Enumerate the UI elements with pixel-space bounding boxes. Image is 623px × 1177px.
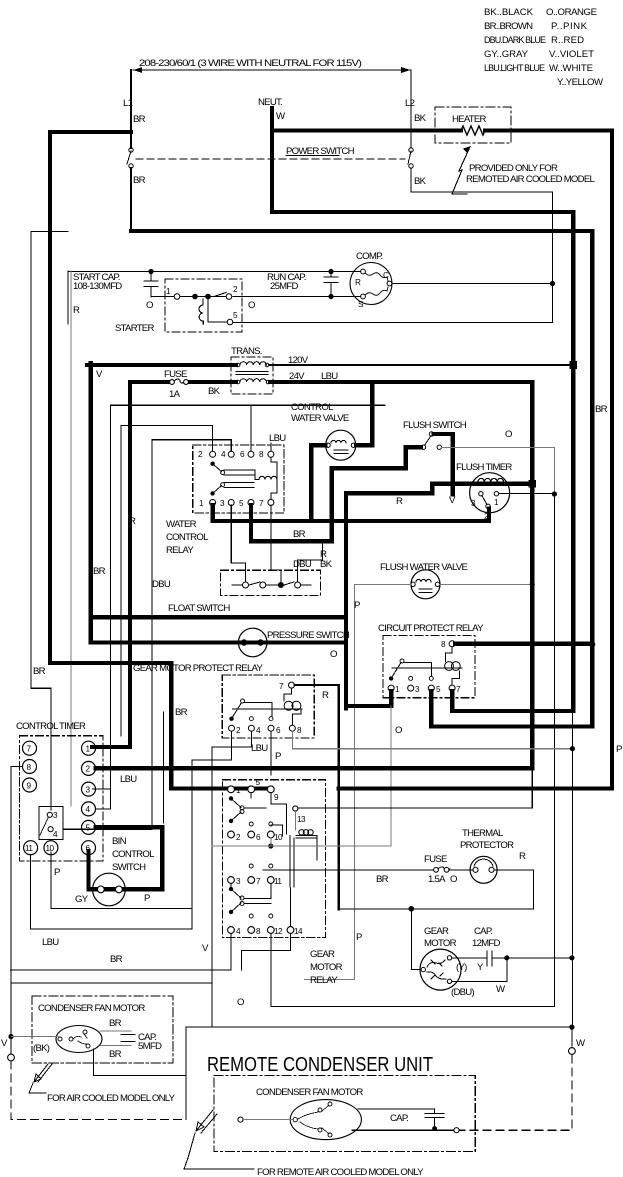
svg-text:12MFD: 12MFD (472, 938, 501, 949)
node junction P line (570, 746, 575, 751)
svg-text:GY: GY (75, 894, 89, 905)
svg-text:BK: BK (320, 559, 333, 570)
wire BR fuse line (263, 870, 533, 909)
svg-text:10: 10 (46, 844, 55, 853)
svg-text:1: 1 (494, 498, 499, 507)
svg-text:FLOAT SWITCH: FLOAT SWITCH (168, 603, 230, 614)
GM terminals row2 (228, 831, 235, 838)
wire CFM feed gray (11, 1036, 58, 1038)
GM terminals row3 (228, 877, 235, 884)
node junction t10 (268, 843, 273, 848)
svg-text:6: 6 (256, 833, 261, 842)
svg-text:FLUSH SWITCH: FLUSH SWITCH (403, 420, 467, 431)
svg-text:R: R (129, 516, 136, 527)
svg-text:W: W (576, 1038, 586, 1049)
svg-text:9: 9 (27, 781, 32, 790)
svg-text:BR: BR (109, 1018, 122, 1029)
wire V terminal bottom left (10, 970, 12, 1054)
svg-text:CAP.: CAP. (474, 926, 492, 937)
wire thick timer bus into GM relay (171, 786, 271, 790)
svg-text:BR: BR (376, 874, 389, 885)
wire timer8 stub (11, 767, 23, 970)
wire pressure to CPR1 (346, 643, 391, 707)
svg-text:BR: BR (110, 954, 123, 965)
svg-text:STARTER: STARTER (115, 323, 154, 334)
svg-text:2: 2 (236, 833, 241, 842)
wire NEUT thin continuation (571, 711, 573, 1028)
svg-text:GEAR: GEAR (424, 926, 449, 937)
svg-text:6: 6 (276, 726, 281, 735)
svg-text:1: 1 (395, 685, 400, 694)
callout arrow remote (196, 1110, 217, 1133)
svg-text:5: 5 (233, 311, 238, 320)
condenser fan motor box (32, 996, 173, 1063)
svg-text:W..WHITE: W..WHITE (549, 63, 593, 74)
svg-text:FLUSH WATER VALVE: FLUSH WATER VALVE (380, 562, 467, 573)
heater callout arrow (452, 149, 469, 194)
svg-text:8: 8 (256, 927, 261, 936)
wire GMP7 right and down (295, 685, 339, 909)
svg-text:FOR REMOTE AIR COOLED MODEL ON: FOR REMOTE AIR COOLED MODEL ONLY (257, 1167, 424, 1177)
svg-text:WATER: WATER (166, 519, 197, 530)
svg-text:5: 5 (86, 824, 91, 833)
wire timer6 thick to bin (89, 851, 163, 889)
wire L1 bus right (131, 231, 592, 727)
GM terminal 13 (293, 806, 298, 811)
svg-text:SWITCH: SWITCH (112, 862, 146, 873)
node junction cap right (504, 955, 509, 960)
pressure switch (238, 628, 267, 657)
wire left outer thin (31, 232, 68, 909)
svg-text:DBU: DBU (293, 559, 312, 570)
svg-text:GY..GRAY: GY..GRAY (484, 49, 529, 60)
svg-text:R..RED: R..RED (551, 35, 584, 46)
wire t14 jog (242, 933, 291, 969)
timer circle 2 (82, 761, 96, 775)
float switch contacts (243, 582, 249, 588)
GM coil (294, 812, 296, 831)
svg-text:MOTOR: MOTOR (424, 938, 457, 949)
wire relay t2 up distribution (121, 426, 213, 737)
wire flush switch common (434, 434, 453, 495)
svg-text:BR: BR (293, 529, 306, 540)
svg-text:6: 6 (240, 450, 245, 459)
svg-text:RELAY: RELAY (310, 975, 338, 986)
svg-text:PROVIDED ONLY FOR: PROVIDED ONLY FOR (469, 163, 558, 174)
svg-text:CONTROL: CONTROL (166, 532, 209, 543)
svg-text:P: P (54, 867, 60, 878)
node junction W line (569, 1025, 574, 1030)
trans primary (236, 363, 240, 367)
GM arm 2 (229, 819, 233, 823)
svg-text:7: 7 (456, 685, 461, 694)
heater resistor element (461, 126, 485, 135)
svg-text:5: 5 (239, 499, 244, 508)
timer circle 7 (23, 741, 37, 755)
relay coil (259, 476, 277, 479)
wire flush switch NC orange (442, 448, 555, 494)
svg-text:3: 3 (415, 685, 420, 694)
svg-text:1.5A: 1.5A (428, 874, 446, 885)
capacitor start cap (144, 272, 158, 298)
wire NEUT drop (270, 108, 274, 212)
svg-text:O: O (450, 874, 457, 885)
svg-text:8: 8 (441, 640, 446, 649)
timer circle 9 (23, 778, 37, 792)
svg-text:BK: BK (208, 386, 221, 397)
node junction remote cap (432, 1126, 437, 1131)
GM arm 4 (229, 910, 233, 914)
wire flush valve right to LBU bus (440, 583, 533, 585)
svg-text:BR: BR (109, 1049, 122, 1060)
svg-text:7: 7 (279, 682, 284, 691)
svg-text:P..PINK: P..PINK (551, 21, 588, 32)
svg-text:1: 1 (166, 287, 171, 296)
svg-text:REMOTED AIR COOLED MODEL: REMOTED AIR COOLED MODEL (466, 174, 595, 185)
wire timer11 drop (31, 855, 192, 929)
wire remote feed (238, 1117, 243, 1122)
wire GMP2 drop (192, 732, 232, 929)
node junction O line (552, 491, 557, 496)
wire motor DBU loop (452, 960, 507, 981)
svg-text:RELAY: RELAY (166, 545, 194, 556)
svg-text:BR: BR (595, 404, 608, 415)
svg-text:BR..BROWN: BR..BROWN (484, 21, 533, 32)
GMP terminals bottom (229, 725, 235, 731)
node run cap bottom (328, 294, 333, 299)
svg-text:(Y): (Y) (456, 962, 467, 973)
switch L1 pole (127, 151, 131, 164)
wire GMP6 drop (270, 732, 272, 776)
wire heater line into GM area (339, 786, 612, 790)
capacitor 12MFD (452, 957, 507, 959)
wire L1 drop (130, 70, 132, 148)
wire timer4 stub (96, 789, 111, 809)
wire thick L1 feed left (50, 132, 131, 663)
wire CPR1 orange drop (390, 706, 392, 846)
svg-text:V: V (1, 1038, 8, 1049)
svg-text:O: O (248, 300, 255, 311)
svg-text:BR: BR (133, 175, 146, 186)
wire float BK stub (298, 541, 323, 582)
switch L2 pole (408, 151, 411, 164)
svg-text:V..VIOLET: V..VIOLET (549, 49, 594, 60)
starter enclosure thin box (67, 271, 69, 324)
svg-text:THERMAL: THERMAL (462, 828, 504, 839)
wire relay t5 to flush switch (251, 447, 421, 541)
svg-text:(BK): (BK) (33, 1043, 50, 1054)
capacitor run cap (324, 272, 338, 297)
svg-text:4: 4 (86, 805, 91, 814)
wire NEUT top to heater (272, 131, 612, 789)
GM arm 1 (229, 796, 233, 800)
wire cap to W line (507, 957, 572, 959)
svg-text:7: 7 (259, 499, 264, 508)
svg-text:3: 3 (236, 877, 241, 886)
remote box (214, 1076, 475, 1152)
svg-text:W: W (276, 111, 286, 122)
svg-text:(DBU): (DBU) (451, 987, 474, 998)
svg-text:9: 9 (274, 793, 279, 802)
wire t4 drop to BR bottom (10, 933, 231, 969)
trans secondary (236, 380, 240, 384)
wire corridor vertical x163 (163, 712, 165, 823)
svg-text:R: R (396, 496, 403, 507)
svg-text:W: W (496, 984, 506, 995)
cap 5MFD plates (121, 1035, 135, 1042)
wire start cap box gray vertical (70, 271, 72, 806)
svg-text:4: 4 (236, 927, 241, 936)
heater box (435, 107, 511, 143)
svg-text:25MFD: 25MFD (270, 281, 299, 292)
svg-text:FUSE: FUSE (164, 369, 187, 380)
svg-text:TRANS.: TRANS. (231, 346, 262, 357)
svg-text:O..ORANGE: O..ORANGE (546, 7, 597, 18)
GM arm 3 (229, 887, 233, 891)
svg-text:8: 8 (27, 763, 32, 772)
svg-text:Y: Y (477, 962, 484, 973)
timer circle 10 (44, 841, 58, 855)
svg-text:BR: BR (133, 114, 146, 125)
CPR contact arm (389, 676, 393, 680)
svg-text:BK..BLACK: BK..BLACK (484, 7, 534, 18)
svg-text:2: 2 (236, 726, 241, 735)
wire upper distribution line (93, 405, 385, 789)
svg-text:S: S (358, 300, 364, 309)
wire flush valve left P drop (305, 584, 411, 979)
callout arrow air cooled (34, 1064, 52, 1082)
svg-text:DBU: DBU (152, 579, 171, 590)
svg-text:14: 14 (294, 927, 303, 936)
flush timer coil (478, 478, 504, 482)
svg-text:O: O (330, 649, 337, 660)
GM terminals row4 (228, 927, 235, 934)
svg-text:LBU.LIGHT BLUE: LBU.LIGHT BLUE (484, 63, 545, 73)
gear motor relay box (222, 780, 325, 938)
CPR terminals bottom (388, 685, 394, 691)
svg-text:BK: BK (414, 113, 427, 124)
CFM motor (56, 1026, 102, 1053)
svg-text:WATER VALVE: WATER VALVE (291, 413, 349, 424)
node junction 120V to NEUT vertical (570, 361, 578, 369)
wire valve to relay t1 and timer2 (213, 445, 489, 521)
svg-text:P: P (275, 751, 281, 762)
svg-text:10: 10 (274, 833, 283, 842)
svg-text:1: 1 (86, 745, 91, 754)
svg-text:O: O (395, 725, 402, 736)
wire W dashed to remote (460, 1055, 572, 1130)
color legend (484, 7, 604, 88)
node run cap top (328, 269, 333, 274)
wire 24V secondary thick (130, 380, 236, 384)
wire timer5 thick to bin (96, 827, 163, 889)
svg-text:C: C (383, 271, 389, 280)
float switch box (220, 570, 320, 595)
svg-text:11: 11 (274, 877, 282, 886)
svg-text:LBU: LBU (42, 937, 59, 948)
wire remote motor bottom (352, 1129, 453, 1131)
svg-text:4: 4 (256, 726, 261, 735)
wire relay t4 up distribution (63, 440, 231, 830)
relay contact arm upper (210, 462, 214, 466)
GMP contact arm (229, 717, 233, 721)
svg-text:O: O (146, 300, 153, 311)
wire thermal return line (339, 908, 534, 910)
svg-text:MOTOR: MOTOR (310, 962, 343, 973)
node junction C wire (550, 281, 555, 286)
wire GMP8 P line (292, 732, 572, 749)
svg-text:O: O (237, 997, 244, 1008)
wire fuse bus down to timer1 (92, 382, 130, 747)
wire W drop and terminal (571, 1028, 573, 1046)
wire relay t7 to float dot (270, 505, 272, 570)
node junction timer line LBU bus (528, 480, 536, 488)
svg-text:PROTECTOR: PROTECTOR (460, 840, 514, 851)
wire V-box left edge (88, 363, 92, 643)
svg-text:3: 3 (53, 811, 58, 820)
svg-text:BIN: BIN (112, 836, 127, 847)
wire 24V drop to valve (356, 382, 372, 445)
svg-text:BK: BK (414, 176, 427, 187)
wire relay t6 up distribution (250, 405, 252, 451)
wire terminal5 to comp C (233, 322, 553, 324)
timer circle 6 (82, 841, 96, 855)
svg-text:P: P (356, 932, 362, 943)
wire y617 line (93, 615, 345, 619)
svg-text:1: 1 (199, 499, 204, 508)
wire relay t3 to float (231, 505, 245, 582)
wire starter middle line (151, 296, 360, 298)
timer circle 5 (82, 820, 96, 834)
timer circle 11 (24, 841, 38, 855)
svg-text:R: R (519, 851, 526, 862)
svg-text:P: P (354, 600, 360, 611)
wire timer3 stub (96, 788, 111, 790)
svg-text:8: 8 (297, 726, 302, 735)
svg-text:BR: BR (175, 707, 188, 718)
timer circle 4 (82, 802, 96, 816)
wire bottom link y982 (11, 982, 212, 984)
remote motor (290, 1100, 361, 1140)
wire CPR7 to NEUT corner (452, 691, 573, 711)
wire flush timer line (432, 482, 532, 486)
flush timer contacts (479, 492, 483, 496)
timer internal box 3 4 (39, 806, 63, 839)
wire CPR8 to L1 bus (455, 642, 592, 646)
svg-text:BR: BR (93, 566, 106, 577)
wire t12 drop to O bottom (271, 933, 555, 1006)
svg-text:4: 4 (53, 830, 58, 839)
svg-text:4: 4 (221, 450, 226, 459)
svg-text:LBU: LBU (251, 743, 268, 754)
svg-text:7: 7 (27, 745, 32, 754)
svg-text:FOR AIR COOLED MODEL ONLY: FOR AIR COOLED MODEL ONLY (47, 1093, 176, 1104)
svg-text:11: 11 (25, 844, 33, 853)
wire timer2 LBU bus (96, 766, 533, 770)
wire comp C to bus (392, 283, 553, 285)
power switch dashed linkage (136, 158, 405, 160)
svg-text:2: 2 (198, 450, 203, 459)
wire L1 below switch (130, 168, 132, 231)
svg-text:108-130MFD: 108-130MFD (73, 281, 122, 292)
starter contacts (192, 294, 198, 300)
svg-text:P: P (616, 744, 622, 755)
svg-text:CONDENSER FAN MOTOR: CONDENSER FAN MOTOR (38, 1003, 145, 1014)
svg-text:PRESSURE SWITCH: PRESSURE SWITCH (267, 630, 350, 641)
wire CPR5 to L1 corner (431, 691, 592, 727)
svg-text:5: 5 (436, 685, 441, 694)
wire CFM bottom out (94, 1049, 186, 1120)
node start cap junction (148, 269, 153, 274)
relay contact arm lower (210, 491, 214, 495)
wire timer10 drop (51, 855, 192, 909)
wire pressure line (91, 640, 346, 644)
svg-text:208-230/60/1 (3 WIRE WITH NEUT: 208-230/60/1 (3 WIRE WITH NEUTRAL FOR 11… (139, 58, 362, 69)
svg-text:1A: 1A (169, 389, 181, 400)
wire T1 horizontal y663 (50, 663, 171, 789)
wire L2 to right bus (411, 168, 553, 323)
svg-text:Y..YELLOW: Y..YELLOW (557, 77, 604, 88)
svg-text:DBU.DARK BLUE: DBU.DARK BLUE (484, 35, 546, 45)
svg-text:BR: BR (33, 666, 46, 677)
svg-text:P: P (144, 893, 150, 904)
node junction W vertical (569, 955, 574, 960)
GMP coil (284, 688, 301, 725)
svg-text:2: 2 (86, 765, 91, 774)
wire timer t2 down to common (487, 509, 491, 522)
wire t10 right exit (212, 838, 391, 846)
svg-text:3: 3 (220, 499, 225, 508)
wire 13 to P drop (298, 769, 532, 808)
svg-text:FUSE: FUSE (424, 854, 447, 865)
svg-text:GEAR: GEAR (310, 949, 335, 960)
wire NEUT bus right (272, 212, 573, 711)
svg-text:O: O (505, 429, 512, 440)
svg-text:LBU: LBU (120, 774, 137, 785)
starter coil (199, 299, 203, 324)
svg-text:3: 3 (86, 785, 91, 794)
svg-text:LBU: LBU (269, 433, 286, 444)
CPR coil (446, 647, 460, 685)
svg-text:REMOTE CONDENSER UNIT: REMOTE CONDENSER UNIT (207, 1054, 433, 1076)
supply dimension arrow (133, 69, 410, 71)
svg-text:COMP.: COMP. (356, 251, 383, 262)
svg-text:8: 8 (259, 450, 264, 459)
svg-text:7: 7 (256, 877, 261, 886)
gear motor terminals (421, 967, 425, 971)
svg-text:CONTROL: CONTROL (291, 402, 334, 413)
wire V dashed down (11, 1061, 186, 1120)
svg-text:R: R (73, 305, 80, 316)
wire bottom W line (186, 1027, 572, 1075)
node junction gear motor feed (409, 906, 415, 912)
svg-text:CIRCUIT PROTECT RELAY: CIRCUIT PROTECT RELAY (378, 623, 484, 634)
timer circle 3 (82, 782, 96, 796)
svg-text:2: 2 (233, 285, 238, 294)
svg-text:CAP.: CAP. (390, 1113, 408, 1124)
timer circle 8 (23, 760, 37, 774)
GM terminals row1 (228, 786, 235, 793)
wire timer t1 to O line (499, 493, 555, 495)
svg-text:CONTROL: CONTROL (112, 849, 155, 860)
svg-text:FLUSH TIMER: FLUSH TIMER (456, 462, 512, 473)
svg-text:CONDENSER FAN MOTOR: CONDENSER FAN MOTOR (256, 1087, 363, 1098)
wire L2 drop (410, 70, 412, 148)
wire starter top line (68, 271, 360, 273)
svg-text:V: V (202, 943, 209, 954)
node junction L1 bus to CPR8 (589, 642, 595, 648)
node junction valve LBU (530, 582, 535, 587)
